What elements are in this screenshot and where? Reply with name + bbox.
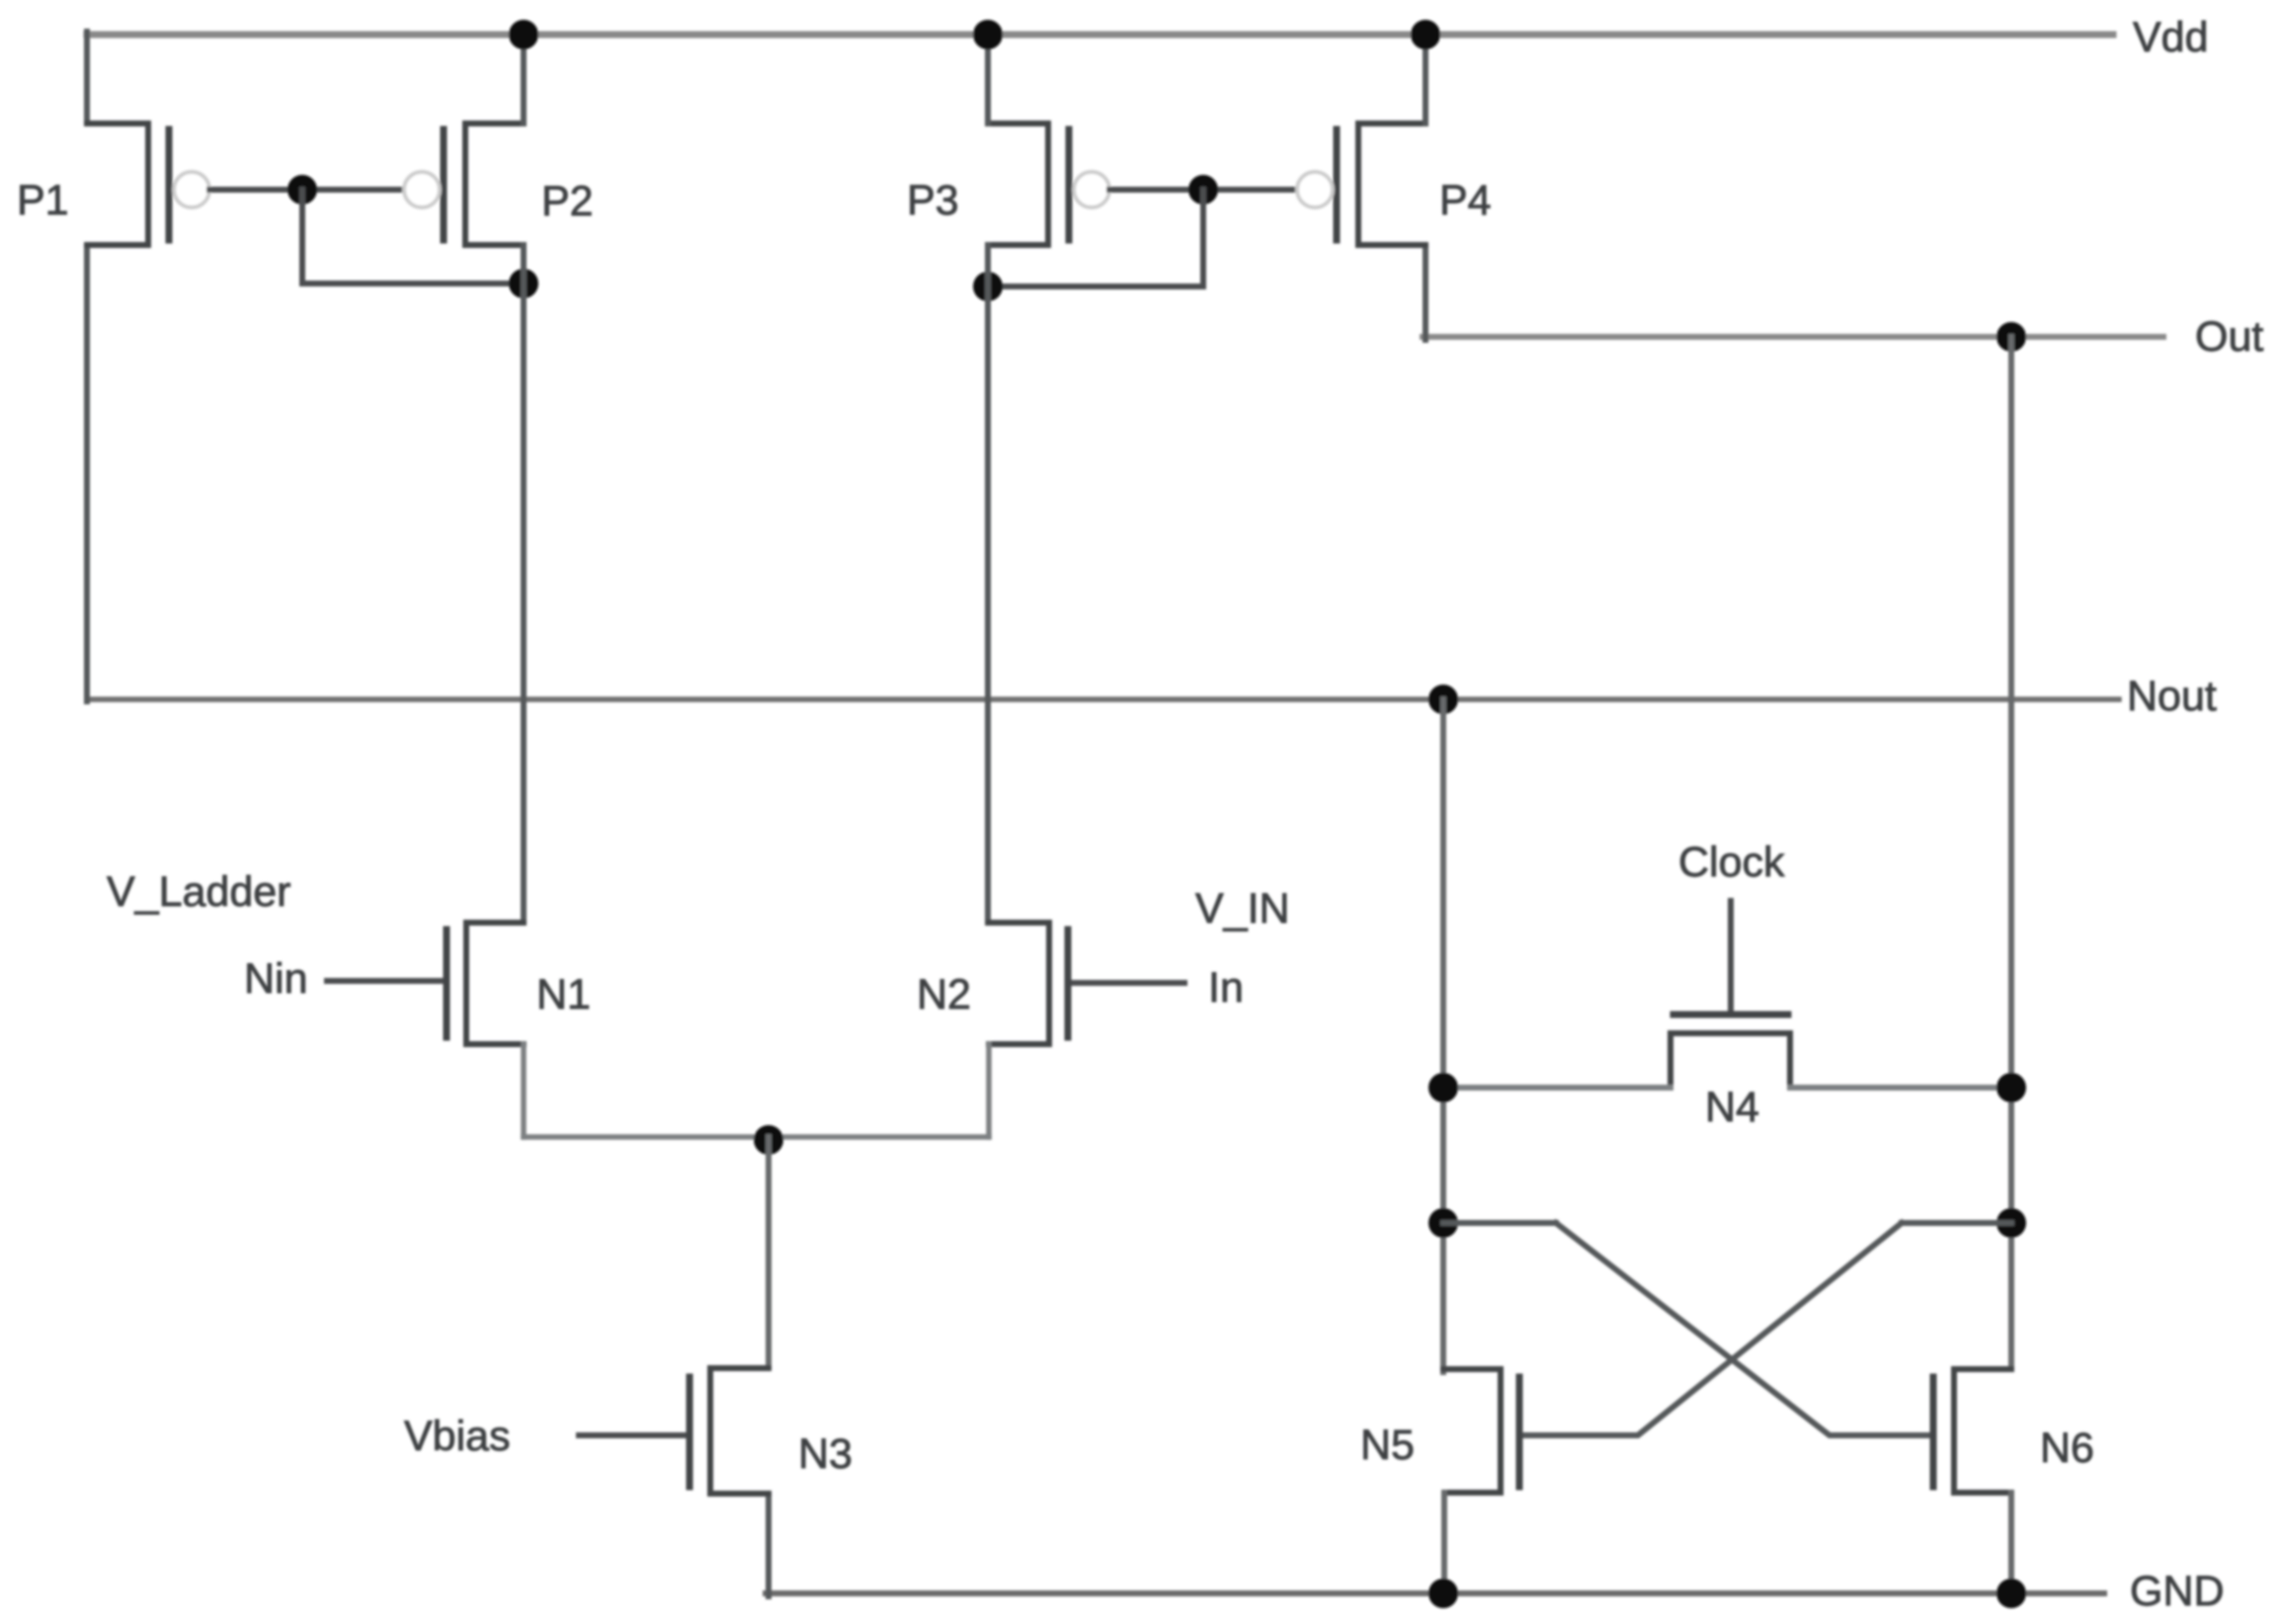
svg-text:In: In bbox=[1208, 964, 1244, 1012]
wire Vbias to N3 gate bbox=[579, 1432, 684, 1438]
wire P4 drain lead down to Out bbox=[1423, 245, 1428, 340]
wire P2 source to Vdd bbox=[521, 35, 527, 123]
wire gate tie down to P3 drain bbox=[988, 190, 1203, 286]
gate bubble of P4 bbox=[1297, 172, 1333, 207]
node GND dot at N5 bbox=[1428, 1579, 1458, 1608]
gate bubble of P3 bbox=[1074, 172, 1109, 207]
node junction dot at P2 drain bbox=[509, 269, 538, 298]
svg-text:N4: N4 bbox=[1705, 1084, 1759, 1131]
svg-text:N2: N2 bbox=[917, 971, 971, 1018]
node dot cross-couple right bbox=[1996, 1208, 2026, 1238]
wire Nout horizontal net bbox=[87, 696, 2119, 702]
transistor P3 bbox=[988, 123, 1069, 245]
wire gate tie down to P2 drain bbox=[302, 190, 524, 284]
wire right column vertical Out to N6 bbox=[2008, 337, 2014, 1369]
node junction dot at P3 drain bbox=[973, 272, 1003, 301]
svg-text:P4: P4 bbox=[1439, 177, 1492, 224]
transistor N1 bbox=[447, 923, 524, 1044]
svg-text:P1: P1 bbox=[17, 177, 69, 224]
svg-text:N1: N1 bbox=[536, 971, 591, 1018]
wire P4 source to Vdd bbox=[1423, 35, 1428, 123]
gate bubble of P2 bbox=[404, 172, 440, 207]
wire P1 drain lead down to Nout bbox=[84, 245, 90, 701]
wire P3 drain down to N2 drain bbox=[985, 245, 991, 923]
node dot N4 left bbox=[1428, 1073, 1458, 1102]
node Nout dot bbox=[1428, 685, 1458, 714]
svg-text:Vbias: Vbias bbox=[404, 1413, 511, 1460]
wire tail horizontal bbox=[524, 1134, 989, 1140]
wire N3 source lead down to GND bbox=[766, 1494, 772, 1596]
wire N2 source down to tail bbox=[986, 1044, 992, 1137]
transistor P4 bbox=[1337, 123, 1425, 245]
wire Out horizontal net bbox=[1423, 334, 2163, 340]
gate bubble of P1 bbox=[174, 172, 209, 207]
wire N4 right terminal bbox=[1790, 1085, 2011, 1091]
wire N5 source to GND bbox=[1441, 1493, 1447, 1593]
wire Vdd rail bbox=[87, 32, 2113, 39]
wire P1 source lead bbox=[84, 32, 90, 123]
transistor N2 bbox=[989, 923, 1068, 1044]
transistor N5 bbox=[1443, 1369, 1519, 1493]
transistor P2 bbox=[444, 123, 524, 245]
node GND dot at N6 bbox=[1996, 1579, 2026, 1608]
wire P3 gate to P4 gate bbox=[1109, 187, 1296, 193]
wire cross-couple top left stub bbox=[1443, 1220, 1556, 1226]
wire Clock to N4 gate bbox=[1728, 901, 1734, 1013]
transistor P1 bbox=[87, 123, 169, 245]
wire P3 source to Vdd bbox=[985, 35, 991, 123]
wire Nin to N1 gate bbox=[327, 978, 441, 984]
svg-text:V_IN: V_IN bbox=[1195, 885, 1290, 933]
node Vdd dot at P3 bbox=[973, 20, 1003, 49]
svg-text:Nout: Nout bbox=[2127, 673, 2217, 720]
node Vdd dot at P2 bbox=[509, 20, 538, 49]
wire diagonal right-top to N5 gate bbox=[1522, 1223, 1902, 1435]
node Out dot bbox=[1996, 322, 2026, 352]
wire tail down to N3 drain bbox=[766, 1137, 772, 1367]
wire N1 source down to tail bbox=[521, 1044, 527, 1137]
svg-text:P2: P2 bbox=[541, 178, 594, 225]
wire N6 source to GND bbox=[2008, 1493, 2014, 1593]
wire cross-couple top right stub bbox=[1902, 1220, 2011, 1226]
wire diagonal left-top to N6 gate bbox=[1556, 1223, 1932, 1435]
svg-text:N3: N3 bbox=[798, 1430, 853, 1478]
svg-text:GND: GND bbox=[2130, 1568, 2225, 1615]
svg-text:N6: N6 bbox=[2040, 1424, 2094, 1472]
wire P2 drain down to N1 drain bbox=[521, 245, 527, 923]
wire In to N2 gate bbox=[1073, 980, 1184, 986]
wire GND horizontal net bbox=[766, 1590, 2104, 1596]
svg-text:Out: Out bbox=[2195, 313, 2263, 361]
transistor N4 bbox=[1670, 1015, 1790, 1088]
svg-text:P3: P3 bbox=[907, 177, 959, 224]
wire P1 gate to P2 gate bbox=[209, 187, 403, 193]
svg-text:V_Ladder: V_Ladder bbox=[107, 868, 291, 916]
node tail junction dot bbox=[754, 1125, 783, 1155]
node dot cross-couple left bbox=[1428, 1208, 1458, 1238]
node junction dot P1-P2 gates bbox=[287, 175, 317, 204]
node Vdd dot at P4 bbox=[1411, 20, 1440, 49]
node junction dot P3-P4 gates bbox=[1188, 175, 1218, 204]
wire N4 left terminal bbox=[1443, 1085, 1670, 1091]
svg-text:Clock: Clock bbox=[1678, 839, 1785, 886]
transistor N6 bbox=[1933, 1369, 2011, 1493]
wire left column vertical Nout to N5 bbox=[1440, 699, 1446, 1372]
node dot N4 right bbox=[1996, 1073, 2026, 1102]
svg-text:Nin: Nin bbox=[244, 955, 308, 1003]
svg-text:Vdd: Vdd bbox=[2133, 14, 2209, 61]
svg-text:N5: N5 bbox=[1360, 1421, 1415, 1469]
transistor N3 bbox=[690, 1368, 769, 1494]
